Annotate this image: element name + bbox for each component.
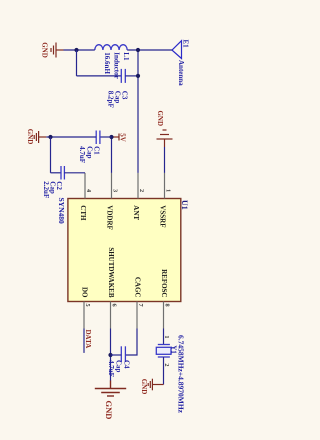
wire C3 branch lower bbox=[77, 75, 122, 77]
wire pin5 DO net bbox=[83, 329, 85, 353]
svg-text:1: 1 bbox=[163, 335, 170, 338]
ground GND4 bbox=[95, 381, 126, 397]
svg-text:GND: GND bbox=[104, 401, 114, 420]
svg-text:SYN480: SYN480 bbox=[57, 198, 66, 225]
chip U1 body bbox=[68, 199, 181, 302]
svg-text:Y1: Y1 bbox=[170, 345, 178, 354]
wire A2 to C2 chain bbox=[50, 137, 52, 173]
svg-text:C4: C4 bbox=[122, 360, 130, 369]
pin 2 ANT stub bbox=[137, 173, 139, 199]
crystal Y1 bbox=[156, 345, 171, 358]
svg-text:2.2uF: 2.2uF bbox=[42, 181, 50, 198]
ground GND2 bbox=[34, 131, 46, 143]
pin 1 VSSRF stub bbox=[164, 173, 166, 199]
pin 3 VDDRF stub bbox=[111, 173, 113, 199]
wire C1 branch upper bbox=[100, 136, 112, 138]
svg-text:E1: E1 bbox=[182, 40, 190, 49]
svg-text:Cap: Cap bbox=[115, 360, 123, 373]
capacitor C2 bbox=[61, 166, 64, 180]
svg-text:5V: 5V bbox=[119, 133, 127, 142]
svg-text:L1: L1 bbox=[122, 52, 130, 61]
svg-text:Antenna: Antenna bbox=[177, 60, 185, 86]
wire C4 to rail bbox=[111, 354, 122, 356]
svg-text:CTH: CTH bbox=[79, 205, 87, 221]
wire C3 top bbox=[125, 75, 138, 77]
node A junction tank/gnd bbox=[74, 48, 78, 52]
wire crystal to gnd5 bbox=[163, 357, 165, 385]
wire ANT horizontal bbox=[137, 50, 139, 173]
svg-text:1: 1 bbox=[165, 189, 172, 192]
node C junction antenna/ANT bbox=[136, 48, 140, 52]
capacitor C4 bbox=[121, 346, 125, 362]
svg-text:2: 2 bbox=[138, 189, 145, 192]
ground GND1 below tank bbox=[51, 43, 64, 58]
svg-text:6: 6 bbox=[111, 304, 118, 307]
svg-text:4.7uF: 4.7uF bbox=[107, 360, 115, 377]
svg-text:16.6nH: 16.6nH bbox=[103, 52, 111, 74]
inductor L1 bbox=[95, 45, 127, 50]
wire pin3 to junction D bbox=[111, 137, 113, 173]
pin 8 REFOSC stub bbox=[163, 302, 165, 329]
pin 4 CTH stub bbox=[84, 173, 86, 199]
svg-text:4.7uF: 4.7uF bbox=[78, 146, 86, 163]
svg-text:8.2pF: 8.2pF bbox=[106, 91, 114, 108]
svg-text:GND: GND bbox=[26, 129, 34, 145]
wire pin6 ground rail bbox=[110, 329, 112, 382]
svg-text:GND: GND bbox=[156, 110, 164, 126]
ground GND3 at pin1 bbox=[157, 130, 173, 147]
svg-text:GND: GND bbox=[40, 42, 48, 58]
svg-text:Inductor: Inductor bbox=[112, 52, 120, 78]
ground GND5 bbox=[148, 379, 163, 391]
pin 7 CAGC stub bbox=[136, 302, 138, 329]
wire pin1 to gnd bbox=[164, 147, 166, 173]
wire pin8 to crystal bbox=[163, 329, 165, 345]
power port 5V bbox=[112, 134, 120, 141]
node E junction C4/pin6 bbox=[108, 353, 112, 357]
wire antenna vertical top bbox=[127, 49, 172, 51]
wire pin7 to C4 bbox=[125, 329, 137, 356]
svg-text:3: 3 bbox=[112, 189, 119, 192]
capacitor C3 bbox=[121, 69, 125, 83]
wire C2 vertical lower bbox=[51, 172, 62, 174]
svg-text:7: 7 bbox=[137, 304, 144, 307]
wire C2 top to pin4 bbox=[64, 172, 85, 174]
svg-text:U1: U1 bbox=[180, 200, 189, 210]
node D junction pin3/C1 bbox=[109, 135, 113, 139]
antenna E1 bbox=[172, 41, 182, 59]
capacitor C1 bbox=[96, 131, 100, 145]
svg-text:DO: DO bbox=[81, 287, 89, 298]
svg-text:VSSRF: VSSRF bbox=[159, 205, 167, 227]
svg-text:8: 8 bbox=[164, 304, 171, 307]
svg-text:6.7458MHz+4.8970MHz: 6.7458MHz+4.8970MHz bbox=[177, 335, 186, 414]
svg-text:ANT: ANT bbox=[132, 205, 140, 220]
svg-text:5: 5 bbox=[84, 304, 91, 307]
wire C1 to ground bbox=[46, 136, 96, 138]
node B junction C3/ANT bbox=[136, 74, 140, 78]
svg-text:REFOSC: REFOSC bbox=[160, 269, 168, 297]
pin 5 DO stub bbox=[83, 302, 85, 329]
pin 6 SHUT/WAKEB stub bbox=[110, 302, 112, 329]
svg-text:SHUTDWAKEB: SHUTDWAKEB bbox=[107, 247, 115, 298]
svg-text:DATA: DATA bbox=[84, 330, 92, 349]
wire node A to C3 branch bbox=[76, 50, 78, 76]
svg-text:CAGC: CAGC bbox=[134, 277, 142, 298]
svg-text:GND: GND bbox=[140, 379, 148, 395]
wire below coil bbox=[64, 49, 95, 51]
svg-text:VDDRF: VDDRF bbox=[106, 205, 114, 230]
node A2 junction C2 branch bbox=[48, 135, 52, 139]
